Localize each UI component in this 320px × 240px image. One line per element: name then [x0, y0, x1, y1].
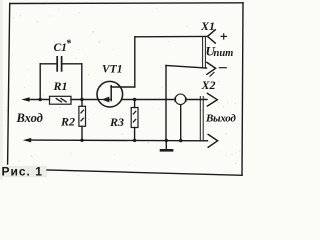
junction node jack stem rail: [179, 139, 182, 142]
wire: R2 branch down: [81, 100, 83, 107]
wire: drain riser to top rail: [134, 37, 136, 87]
label plus: [221, 33, 228, 39]
wire: VT1 source lead to jack: [122, 99, 176, 101]
wire: R3 bottom to rail: [134, 128, 136, 141]
junction node at R3 top: [133, 98, 136, 101]
wire: jack stem down to rail: [180, 105, 182, 141]
X2 bracket lines: [200, 96, 203, 141]
svg-text:R2: R2: [60, 115, 75, 129]
junction node at R2 top: [80, 98, 83, 101]
input arrow (Вход): [21, 97, 29, 102]
wire: C1 loop right riser down to node: [81, 64, 83, 100]
svg-text:пит: пит: [214, 48, 234, 59]
svg-text:X2: X2: [201, 78, 216, 92]
junction node R3 bottom rail: [133, 139, 136, 142]
wire: negative supply from X1 to riser: [166, 66, 207, 69]
capacitor C1 plates: [57, 56, 61, 72]
resistor R2: [79, 106, 86, 126]
resistor R3: [131, 108, 138, 128]
svg-text:C1: C1: [54, 42, 67, 54]
connector X2 upper contact (arrow): [207, 93, 218, 106]
wire: jack to X2 contact: [186, 99, 207, 101]
transistor VT1 (p-channel JFET): [97, 81, 123, 107]
wire: negative riser down to ground rail: [165, 66, 167, 141]
resistor R1: [50, 96, 72, 104]
svg-text:Выход: Выход: [205, 113, 236, 125]
connector X1 upper contact (fork, +): [208, 29, 216, 43]
wire: R1 right to VT1 gate: [71, 99, 98, 101]
wire: C1 loop left riser: [39, 64, 41, 100]
wire: R3 branch down: [134, 100, 136, 108]
common rail arrow: [23, 138, 31, 143]
X1 bracket lines: [203, 37, 206, 69]
wire: R2 bottom to rail: [81, 126, 83, 140]
junction node ground rail: [165, 139, 168, 142]
output jack circle on source line: [175, 94, 186, 105]
junction node at C1/R1 left: [39, 98, 42, 101]
ground symbol: [160, 141, 174, 151]
label minus: [219, 67, 227, 69]
VT1 gate arrow: [102, 97, 110, 103]
junction node R2 bottom rail: [80, 139, 83, 142]
svg-text:R3: R3: [109, 115, 124, 129]
svg-text:Рис. 1: Рис. 1: [2, 165, 43, 179]
svg-text:X1: X1: [200, 19, 215, 33]
wire: C1 top left segment: [40, 63, 57, 65]
svg-text:Вход: Вход: [16, 111, 43, 125]
wire: VT1 drain jog: [111, 86, 135, 88]
svg-text:VT1: VT1: [102, 63, 122, 75]
connector X2 lower contact (arrow): [208, 134, 218, 148]
svg-text:R1: R1: [53, 79, 68, 93]
wire: top supply rail to X1: [135, 35, 208, 37]
wire: input line from arrow to R1: [29, 99, 50, 101]
wire: bottom common rail: [31, 139, 208, 142]
connector X1 lower contact (arrow, -): [206, 62, 215, 75]
wire: C1 top right segment: [62, 63, 82, 65]
